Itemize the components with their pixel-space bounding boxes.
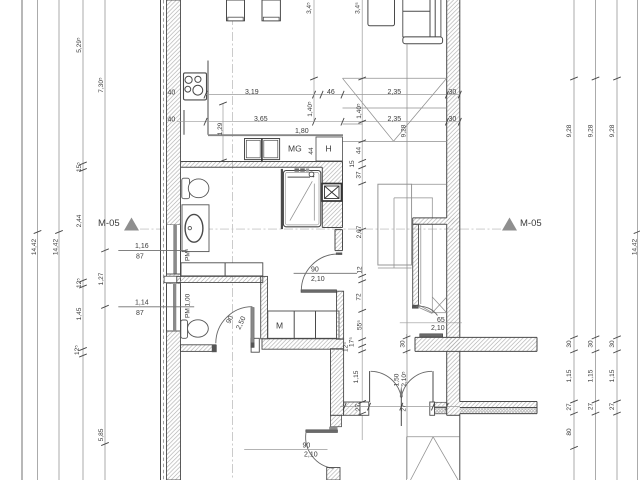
vestibule door leader	[244, 449, 327, 451]
living top line	[343, 77, 447, 79]
svg-text:17⁵: 17⁵	[349, 337, 356, 347]
svg-text:1,45: 1,45	[76, 307, 83, 320]
svg-text:1,15: 1,15	[353, 370, 360, 383]
svg-text:90: 90	[311, 267, 319, 274]
stair corridor inner line	[420, 224, 422, 304]
svg-text:5,29⁵: 5,29⁵	[76, 37, 83, 53]
stair upper rectangles	[378, 184, 447, 313]
svg-text:30: 30	[588, 340, 595, 348]
vertical dim 1,29	[219, 102, 227, 162]
svg-text:1,15: 1,15	[588, 369, 595, 382]
svg-text:37: 37	[356, 171, 363, 179]
closet bottom wall band	[262, 339, 344, 349]
kitchen counter edge vertical	[207, 61, 209, 135]
svg-text:90: 90	[303, 443, 311, 450]
svg-text:1,40⁵: 1,40⁵	[356, 103, 363, 119]
svg-text:87: 87	[136, 254, 144, 261]
left dimension line 5	[104, 0, 106, 480]
door label 1,14/87	[118, 300, 194, 318]
svg-text:MG: MG	[288, 144, 302, 154]
door label 1,16/87	[118, 243, 186, 261]
svg-text:44: 44	[308, 147, 315, 155]
M-05 marker left	[98, 218, 139, 231]
left dimension line 3	[58, 0, 60, 480]
wc counter row	[181, 263, 263, 276]
svg-text:3,4⁵: 3,4⁵	[355, 2, 362, 14]
svg-text:7,30⁵: 7,30⁵	[98, 77, 105, 93]
svg-text:2,10: 2,10	[304, 452, 318, 459]
svg-text:40: 40	[168, 90, 176, 97]
svg-text:1,15: 1,15	[566, 369, 573, 382]
bottom wall band with french door: left hatch piece	[344, 402, 360, 415]
svg-text:1,40⁵: 1,40⁵	[307, 101, 314, 117]
toilet 2	[181, 320, 209, 339]
lower door leaf 65	[420, 334, 443, 337]
void mid line	[343, 107, 447, 109]
pocket door PM bathroom	[167, 225, 181, 274]
wc right wall	[261, 276, 268, 338]
hall door wall stub	[335, 230, 343, 255]
svg-text:1,16: 1,16	[135, 243, 149, 250]
hall west wall lower	[331, 349, 344, 416]
svg-text:2,07: 2,07	[356, 225, 363, 238]
shower	[281, 168, 321, 229]
vanity with sink	[182, 205, 209, 252]
right dim ticks	[570, 77, 640, 450]
garage rectangle with arrow	[407, 437, 460, 480]
stair wall vertical	[413, 224, 419, 305]
stove	[184, 73, 207, 100]
svg-text:12⁵: 12⁵	[76, 278, 83, 288]
svg-text:3,19: 3,19	[245, 89, 259, 96]
stair hall vertical 9,28 line	[406, 44, 408, 479]
wc bottom wall band	[181, 338, 260, 352]
svg-text:9,28: 9,28	[566, 124, 573, 137]
french door right jamb	[430, 402, 435, 415]
svg-text:65: 65	[437, 317, 445, 324]
left wall hatch between pocket doors	[167, 274, 181, 284]
svg-text:40: 40	[168, 117, 176, 124]
hall door label 90/2,10	[294, 267, 357, 284]
svg-text:30: 30	[400, 340, 407, 348]
svg-text:2,10: 2,10	[431, 325, 445, 332]
wc door leaf	[216, 307, 255, 348]
hall-living door leaf	[301, 254, 338, 292]
dim 30 at band A	[403, 334, 411, 354]
stair door label 65/2,10	[431, 317, 445, 332]
stair door jamb cap	[412, 305, 419, 308]
svg-text:1,27: 1,27	[98, 272, 105, 285]
svg-text:27: 27	[588, 403, 595, 411]
svg-text:3,65: 3,65	[254, 116, 268, 123]
bottom wall corner resume	[327, 468, 340, 480]
svg-text:M-05: M-05	[98, 218, 120, 229]
bar chair 2	[262, 0, 280, 21]
centerline vertical kitchen-hall	[232, 0, 234, 480]
right dimension line 3	[616, 0, 618, 480]
svg-text:2,10⁵: 2,10⁵	[401, 371, 408, 387]
svg-text:27: 27	[355, 404, 362, 412]
hall lower dim chain	[358, 274, 366, 415]
vestibule door label 90/2,10	[303, 443, 318, 459]
svg-text:H: H	[326, 144, 332, 154]
void V marker right arm	[394, 78, 447, 141]
svg-text:1,29: 1,29	[217, 122, 224, 135]
wc top wall band	[164, 276, 263, 283]
svg-text:2,10: 2,10	[311, 276, 325, 283]
coffee table	[368, 0, 395, 26]
washing machine MG boxes	[245, 139, 280, 162]
left dimension line 1	[21, 0, 23, 480]
svg-text:PM⁵: PM⁵	[185, 248, 192, 261]
svg-text:PM 1,00: PM 1,00	[185, 293, 192, 318]
svg-text:30: 30	[449, 89, 457, 96]
void V marker left arm	[343, 78, 394, 141]
svg-text:9,28: 9,28	[588, 124, 595, 137]
duct small rect lines	[343, 123, 363, 125]
appliance H box	[316, 137, 343, 161]
svg-text:2,35: 2,35	[388, 116, 402, 123]
svg-text:30: 30	[566, 340, 573, 348]
hall east wall lower	[337, 291, 344, 339]
band B left part	[435, 402, 447, 414]
band B right upper hatch	[460, 402, 537, 415]
svg-text:30: 30	[609, 340, 616, 348]
dimension line y94.5 (3,19 / 46 / 2,35 / 30)	[204, 91, 462, 99]
left dimension line 2	[37, 0, 39, 480]
svg-text:46: 46	[327, 89, 335, 96]
stair door arc	[416, 306, 438, 315]
bar chair 1	[227, 0, 245, 21]
section line M-05 horizontal	[140, 228, 502, 230]
svg-text:44: 44	[356, 147, 363, 155]
french door leaves and arcs	[370, 371, 433, 426]
void bottom line	[343, 140, 447, 142]
svg-text:27: 27	[609, 403, 616, 411]
left dim ticks	[34, 162, 109, 446]
svg-text:2,44: 2,44	[76, 214, 83, 227]
svg-text:12⁵: 12⁵	[343, 342, 350, 352]
svg-text:M: M	[276, 321, 283, 331]
vestibule door leaf	[306, 427, 338, 469]
svg-text:12: 12	[357, 266, 364, 274]
toilet 1	[182, 178, 209, 199]
kitchen counter thick line 1,80	[208, 134, 343, 136]
right dimension line 1	[573, 0, 575, 480]
svg-text:9,28: 9,28	[401, 124, 408, 137]
svg-text:14,42: 14,42	[632, 238, 639, 255]
french door left jamb	[360, 402, 369, 415]
svg-text:14,42: 14,42	[53, 238, 60, 255]
stair winder treads	[419, 297, 447, 314]
left wall outer face	[160, 0, 162, 480]
svg-text:5,85: 5,85	[98, 428, 105, 441]
svg-text:1,50: 1,50	[393, 373, 400, 386]
right dimension line 2	[595, 0, 597, 480]
wall band A lower	[415, 337, 537, 351]
svg-text:55⁵: 55⁵	[357, 320, 364, 330]
svg-text:27: 27	[400, 404, 407, 412]
pocket door PM 1,00 wc	[167, 283, 181, 331]
vertical dim line x314	[310, 0, 318, 122]
svg-text:72: 72	[356, 293, 363, 301]
svg-text:1,14: 1,14	[135, 300, 149, 307]
svg-text:87: 87	[136, 310, 144, 317]
closet M row	[268, 311, 339, 338]
svg-text:2,35: 2,35	[388, 89, 402, 96]
wc door label 90/2,50	[225, 315, 247, 331]
bathroom top wall hatched band	[181, 162, 343, 168]
kitchen cabinet side line	[183, 110, 185, 135]
vertical dim line x362.7	[358, 0, 366, 440]
M-05 marker right	[502, 218, 542, 231]
right exterior wall	[447, 0, 460, 480]
sofa	[403, 0, 443, 44]
svg-text:15: 15	[349, 160, 356, 168]
left wall hatched leaf upper	[167, 0, 181, 225]
stair door label leader	[400, 322, 462, 324]
svg-text:M-05: M-05	[520, 218, 542, 229]
left wall hatched leaf lower	[167, 331, 181, 480]
svg-text:9,28: 9,28	[609, 124, 616, 137]
right dimension line 4	[637, 0, 639, 480]
svg-text:14,42: 14,42	[31, 238, 38, 255]
svg-text:3,4⁵: 3,4⁵	[306, 2, 313, 14]
svg-text:1,15: 1,15	[609, 369, 616, 382]
left dimension line 4	[82, 0, 84, 480]
left wall insulation dashed line	[163, 0, 165, 480]
dimension line y121.7 (3,65 / 2,35 / 30)	[177, 118, 461, 126]
stair wall band top	[413, 218, 459, 224]
svg-text:80: 80	[566, 428, 573, 436]
svg-text:1,80: 1,80	[295, 128, 309, 135]
svg-text:30: 30	[449, 116, 457, 123]
right bathroom wall column with flue	[322, 162, 343, 228]
svg-text:27: 27	[566, 403, 573, 411]
dim line across french door	[340, 403, 460, 411]
